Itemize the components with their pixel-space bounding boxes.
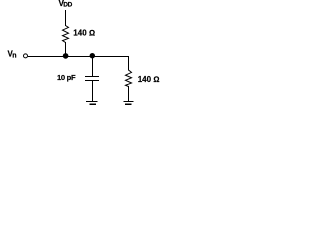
wire bus corner down to R2 — [128, 57, 130, 71]
capacitor C1 top plate — [85, 76, 99, 78]
resistor R2 — [126, 70, 132, 87]
wire R2 to ground — [128, 86, 130, 101]
resistor R1 — [63, 26, 69, 43]
node Vn label — [8, 49, 17, 59]
ground (capacitor) — [86, 102, 98, 105]
ground (R2) — [124, 102, 134, 105]
wire VDD to R1 — [65, 10, 67, 26]
input terminal (open circle) — [24, 54, 28, 58]
svg-text:10 pF: 10 pF — [57, 73, 76, 82]
node VDD label — [59, 0, 73, 9]
capacitor C1 bottom plate — [85, 80, 99, 82]
wire capacitor to ground — [92, 81, 94, 101]
svg-text:n: n — [12, 53, 16, 60]
svg-text:DD: DD — [63, 2, 72, 9]
junction node B (dot) — [90, 53, 95, 58]
wire horizontal bus — [28, 56, 129, 58]
svg-text:140 Ω: 140 Ω — [138, 75, 160, 84]
wire R1 to node A — [65, 42, 67, 56]
svg-text:140 Ω: 140 Ω — [73, 29, 95, 38]
junction node A (dot) — [63, 53, 69, 59]
wire node B to capacitor — [92, 56, 94, 76]
